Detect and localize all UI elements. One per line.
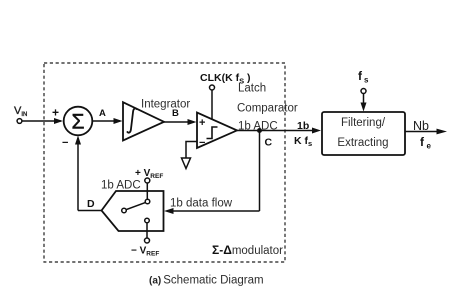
svg-text:+ VREF: + VREF: [135, 168, 163, 180]
CLK terminal circle: [210, 85, 215, 90]
svg-text:1b data flow: 1b data flow: [170, 198, 233, 210]
integral sign inside integrator: [127, 108, 136, 132]
wire DAC output D to left: [78, 210, 102, 212]
svg-text:Σ: Σ: [72, 110, 85, 133]
arrowhead into filter top: [361, 103, 367, 112]
svg-text:K fs: K fs: [294, 135, 312, 148]
arrowhead into filter box: [312, 128, 321, 134]
DAC U3 (1b DAC) pentagon body: [102, 191, 164, 231]
-Vref terminal circle: [145, 238, 150, 243]
+Vref terminal circle: [145, 178, 150, 183]
svg-text:− VREF: − VREF: [131, 246, 159, 258]
dashed modulator boundary box: [44, 63, 285, 262]
arrowhead into DAC: [164, 208, 174, 214]
arrowhead output: [437, 129, 448, 135]
wire fs into filter: [363, 94, 365, 109]
fs terminal circle: [361, 89, 366, 94]
wire integrator to comparator: [164, 121, 194, 123]
svg-text:+: +: [52, 106, 59, 120]
DAC switch pivot contact: [122, 208, 127, 213]
wire summer to integrator: [93, 120, 121, 122]
svg-text:Latch: Latch: [238, 83, 266, 95]
wire node C down: [259, 131, 261, 212]
wire filter output: [405, 131, 443, 133]
svg-text:Integrator: Integrator: [141, 99, 190, 111]
DAC upper contact: [145, 199, 150, 204]
svg-text:fs: fs: [358, 69, 369, 85]
svg-text:fe: fe: [420, 135, 432, 151]
latch step symbol inside comparator: [207, 127, 218, 139]
DAC switch lever: [126, 202, 145, 209]
wire CLK to comparator: [211, 90, 213, 120]
filter block Filtering/Extracting: [322, 112, 405, 155]
svg-text:D: D: [87, 198, 95, 210]
svg-text:Filtering/: Filtering/: [341, 117, 386, 129]
input terminal circle: [17, 119, 22, 124]
svg-text:A: A: [99, 108, 106, 119]
ground symbol at comparator minus input: [186, 142, 197, 159]
wire comparator output to filter: [237, 130, 318, 132]
summing junction S1: [64, 107, 93, 136]
wire +Vref to upper contact: [146, 183, 148, 199]
svg-text:+: +: [199, 117, 205, 129]
integrator U1 triangle: [123, 102, 164, 140]
wire feedback up to summer: [77, 138, 79, 211]
svg-text:Nb: Nb: [413, 119, 429, 133]
svg-text:1b ADC: 1b ADC: [101, 180, 141, 192]
arrowhead into comparator: [188, 119, 197, 125]
wire Vin to summer: [22, 120, 61, 122]
svg-text:C: C: [265, 137, 273, 149]
svg-text:Σ-Δmodulator: Σ-Δmodulator: [212, 243, 283, 257]
svg-text:VIN: VIN: [14, 105, 27, 118]
svg-text:Extracting: Extracting: [337, 137, 388, 149]
arrowhead into summer: [54, 118, 63, 124]
svg-text:B: B: [172, 108, 179, 119]
arrowhead into integrator: [114, 118, 123, 124]
arrowhead into summer bottom: [75, 136, 81, 145]
junction node C dot: [257, 128, 262, 133]
wire feedback to DAC: [167, 210, 260, 212]
wire lower contact to -Vref: [146, 223, 148, 238]
svg-text:−: −: [199, 137, 205, 149]
svg-text:1b: 1b: [297, 120, 309, 132]
svg-text:(a)Schematic Diagram: (a)Schematic Diagram: [149, 275, 264, 287]
svg-text:−: −: [62, 137, 68, 149]
DAC lower contact: [145, 218, 150, 223]
svg-text:Comparator: Comparator: [237, 103, 298, 115]
comparator U2 triangle: [197, 113, 237, 149]
